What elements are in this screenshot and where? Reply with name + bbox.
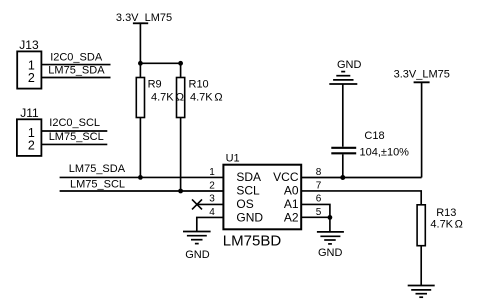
- svg-text:2: 2: [28, 71, 35, 85]
- svg-text:GND: GND: [185, 249, 210, 261]
- svg-text:A0: A0: [284, 184, 299, 198]
- junction node A1/A2: [328, 215, 333, 220]
- IC U1 LM75BD: [223, 152, 301, 249]
- svg-text:I2C0_SDA: I2C0_SDA: [50, 52, 103, 64]
- resistor R10: [177, 78, 223, 118]
- wire A2 net (pin 5): [301, 216, 330, 218]
- power 3.3V_LM75 (top left): [116, 12, 172, 24]
- wire J11 pin 1: [41, 130, 107, 132]
- svg-text:104,±10%: 104,±10%: [360, 147, 410, 159]
- svg-text:GND: GND: [318, 247, 343, 259]
- wire LM75_SCL net: [60, 190, 224, 192]
- svg-text:6: 6: [316, 194, 322, 205]
- svg-text:VCC: VCC: [273, 170, 299, 184]
- junction node at R10 top: [178, 61, 183, 66]
- svg-text:4: 4: [209, 207, 215, 218]
- svg-text:3: 3: [209, 194, 215, 205]
- svg-text:J13: J13: [19, 38, 39, 52]
- wire pin 3 stub: [197, 203, 223, 205]
- ground (A1/A2): [317, 232, 344, 259]
- wire C18 bottom stem: [342, 154, 344, 177]
- svg-text:2: 2: [209, 180, 215, 191]
- svg-text:C18: C18: [364, 130, 384, 142]
- wire J13 pin 2: [41, 77, 110, 79]
- wire R13 bottom stem: [420, 246, 422, 286]
- power 3.3V_LM75 (right): [394, 69, 450, 83]
- svg-text:R10: R10: [189, 79, 209, 91]
- svg-text:2: 2: [28, 138, 35, 152]
- svg-text:GND: GND: [337, 59, 362, 71]
- no-connect X on pin 3: [192, 199, 202, 209]
- svg-text:LM75BD: LM75BD: [223, 233, 282, 250]
- svg-text:SDA: SDA: [236, 170, 261, 184]
- resistor R9: [136, 78, 184, 118]
- junction node C18/VCC: [340, 175, 345, 180]
- svg-text:OS: OS: [236, 197, 253, 211]
- wire R9 bottom to SDA net: [139, 118, 141, 178]
- svg-text:GND: GND: [236, 210, 263, 224]
- junction node SDA/R9: [138, 175, 143, 180]
- svg-text:LM75_SDA: LM75_SDA: [48, 65, 105, 77]
- svg-text:4.7K: 4.7K: [151, 91, 174, 103]
- wire branch down to R10: [180, 63, 182, 77]
- wire pin 4 stub: [197, 217, 224, 231]
- wire A1 net (pin 6): [301, 204, 330, 217]
- svg-text:R9: R9: [148, 79, 162, 91]
- ground GND (above C18): [329, 59, 361, 84]
- ground (R13): [408, 286, 435, 298]
- svg-text:7: 7: [316, 180, 322, 191]
- svg-text:3.3V_LM75: 3.3V_LM75: [394, 69, 450, 81]
- wire J11 pin 2: [41, 143, 107, 145]
- svg-text:Ω: Ω: [455, 219, 463, 231]
- junction node SCL/R10: [178, 189, 183, 194]
- svg-text:5: 5: [316, 207, 322, 218]
- svg-text:LM75_SCL: LM75_SCL: [49, 131, 104, 143]
- connector J11: [17, 106, 42, 156]
- svg-text:LM75_SCL: LM75_SCL: [70, 179, 125, 191]
- wire R10 bottom to SCL net: [180, 118, 182, 192]
- svg-text:J11: J11: [20, 106, 39, 120]
- wire J13 pin 1: [41, 64, 110, 66]
- svg-text:1: 1: [209, 167, 215, 178]
- capacitor C18: [331, 130, 409, 158]
- svg-text:I2C0_SCL: I2C0_SCL: [49, 117, 100, 129]
- wire VCC net (pin 8): [301, 177, 421, 179]
- svg-text:A2: A2: [284, 210, 299, 224]
- svg-text:SCL: SCL: [236, 184, 260, 198]
- wire ground stem A2: [329, 217, 331, 231]
- svg-text:U1: U1: [226, 152, 240, 164]
- wire 3.3V stem to R9: [139, 23, 141, 77]
- wire branch to R10: [140, 62, 180, 64]
- svg-text:4.7K: 4.7K: [430, 219, 453, 231]
- wire 3.3V right stem: [421, 82, 423, 177]
- svg-text:4.7K: 4.7K: [190, 91, 213, 103]
- resistor R13: [417, 205, 463, 246]
- svg-text:Ω: Ω: [214, 91, 222, 103]
- connector J13: [17, 38, 41, 88]
- wire A0 net (pin 7): [301, 191, 421, 205]
- wire LM75_SDA net: [60, 176, 224, 178]
- wire C18 top stem: [342, 84, 344, 147]
- svg-text:8: 8: [316, 167, 322, 178]
- svg-text:R13: R13: [436, 207, 456, 219]
- svg-text:LM75_SDA: LM75_SDA: [69, 163, 126, 175]
- junction node at R9 top: [138, 61, 143, 66]
- ground (pin 4): [183, 232, 211, 262]
- svg-text:A1: A1: [284, 197, 299, 211]
